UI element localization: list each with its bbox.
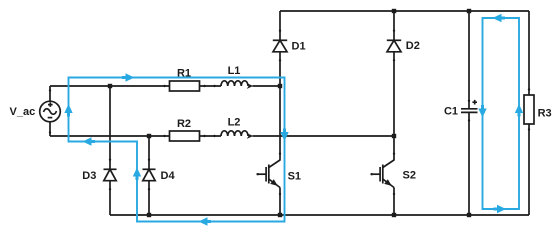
current arrow up through D4	[133, 168, 141, 181]
wire: S1 branch vertical	[279, 11, 281, 215]
diode D4	[143, 169, 176, 182]
component pin terminal dots	[49, 30, 530, 196]
svg-text:D2: D2	[406, 40, 420, 52]
current arrow left on output loop top	[493, 14, 506, 22]
svg-text:D1: D1	[292, 41, 306, 53]
current arrow down through C1 side	[478, 105, 486, 118]
wire: blue current path main loop	[69, 78, 285, 222]
junction node on R2 line at D4	[147, 134, 151, 138]
junction node bottom rail at S1 branch	[278, 213, 282, 217]
svg-text:L1: L1	[228, 65, 241, 77]
wire: R3 branch vertical	[528, 11, 530, 215]
svg-text:C1: C1	[444, 105, 458, 117]
diode D2	[387, 40, 420, 52]
wire: D4 branch from node on R2 line down to bottom rail	[148, 136, 150, 215]
current arrow up through V_ac	[64, 104, 72, 117]
wire: top rail	[280, 10, 529, 12]
current arrow down through S1	[280, 129, 288, 142]
wire: R2 line from V_ac to S2 branch	[50, 135, 394, 137]
current arrow left on bottom blue segment	[199, 217, 212, 225]
svg-text:D3: D3	[82, 170, 96, 182]
resistor R2	[170, 118, 200, 141]
svg-text:S2: S2	[403, 170, 416, 182]
transistor S2 (IGBT)	[371, 160, 416, 188]
inductor L1	[221, 65, 253, 89]
wire: bottom rail	[110, 214, 529, 216]
junction node on R1 line at D3	[108, 84, 112, 88]
ac source V_ac	[10, 86, 61, 136]
transistor S1 (IGBT)	[257, 160, 302, 188]
junction node bottom rail at C1 branch	[467, 213, 471, 217]
diode D1	[273, 40, 306, 52]
junction node bottom rail at S2 branch	[392, 213, 396, 217]
resistor R3	[524, 95, 552, 124]
current arrow up through R3 side	[515, 104, 523, 117]
wire: blue current path output loop C1-R3	[483, 18, 520, 209]
svg-text:S1: S1	[288, 171, 301, 183]
resistor R1	[170, 68, 200, 92]
svg-text:L2: L2	[228, 117, 241, 129]
svg-text:R2: R2	[177, 118, 191, 130]
wire: S2 branch vertical	[393, 11, 395, 215]
wire: D3 branch from node on R1 line down to bottom rail	[109, 86, 111, 215]
svg-text:D4: D4	[161, 170, 176, 182]
svg-text:V_ac: V_ac	[10, 106, 36, 118]
current arrow right on top blue segment	[122, 73, 135, 81]
junction node bottom rail at D4	[147, 213, 151, 217]
current arrow left on return blue segment	[83, 137, 96, 145]
diode D3	[82, 169, 116, 182]
junction node top rail at C1 branch	[467, 9, 471, 13]
wire: C1 branch vertical	[468, 11, 470, 215]
junction node on R2 line at S2 branch	[392, 134, 396, 138]
capacitor C1	[444, 100, 478, 117]
junction node top rail at S2 branch	[392, 9, 396, 13]
junction node on R1 line at S1 branch	[278, 84, 282, 88]
inductor L2	[221, 117, 253, 139]
current arrow right on output loop bottom	[494, 205, 507, 213]
wire: R1 line from V_ac to S1 branch	[50, 85, 280, 87]
svg-text:R3: R3	[538, 107, 552, 119]
